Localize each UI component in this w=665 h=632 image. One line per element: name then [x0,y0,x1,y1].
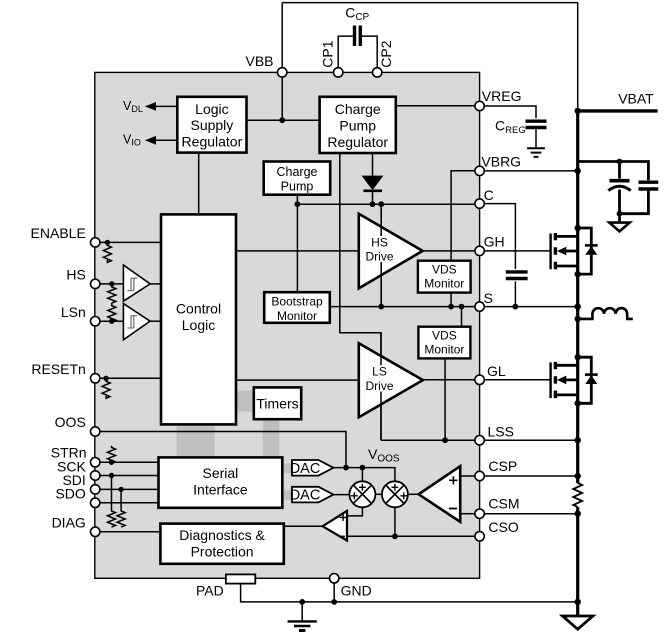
svg-text:HS: HS [66,267,85,283]
wire S pin to power rail [484,306,577,308]
svg-text:Pump: Pump [281,179,314,193]
junction Q2 source [575,400,581,406]
svg-text:PAD: PAD [196,582,224,598]
junction VBB node [279,117,285,123]
svg-text:CSO: CSO [488,519,518,535]
svg-text:Monitor: Monitor [424,276,464,290]
junction ground line at rail [575,599,581,605]
wire STRn pin to Serial Interface [100,461,159,463]
svg-text:Pump: Pump [339,117,376,133]
wire summer1 to summer2 [375,493,382,495]
wire top rail VBB to VBAT column [282,2,578,4]
pin GH [475,246,484,255]
resistor STRn pull-up [108,446,116,464]
wire Logic Supply Regulator to Control Logic [198,153,200,215]
wire Vio arrow line [146,139,177,141]
junction GND pin at ground line [331,599,337,605]
block Diagnostics and Protection [160,524,283,564]
pin VBRG [475,166,484,175]
wire bootstrap cap to S wire [514,281,516,306]
wire Voos branch to summer 1 [361,468,363,482]
wire diode cathode to C node [372,191,374,204]
wire buffer amp output to Diagnostics block [284,525,323,527]
pin SCK [91,471,100,480]
op-amp current sense [419,466,461,522]
pin SDI [91,485,100,494]
wire GL pin to LS FET gate [484,379,549,381]
svg-text:Logic: Logic [195,101,228,117]
inductor load [578,308,633,319]
svg-text:GH: GH [484,234,505,250]
transistor Q1 high-side MOSFET [551,233,578,269]
junction STRn pull-up [109,460,114,465]
junction diode cathode at C line [370,201,376,207]
svg-text:CP1: CP1 [320,40,336,67]
junction bulk caps ground node [617,211,623,217]
svg-text:VDS: VDS [432,262,457,276]
wire PAD to bottom ground line [241,584,578,602]
wire CSO line buffer amp minus to CSO pin [347,535,475,537]
svg-text:Control: Control [176,301,221,317]
bus Serial Interface to DAC1 [281,464,292,474]
capacitor bulk ceramic [620,182,659,214]
pin CP2 [373,68,382,77]
pin DIAG [91,527,100,536]
wire VDS Monitor 1 to S line [450,293,452,307]
pin GL [475,375,484,384]
wire LSn pin to input buffer [100,320,124,322]
svg-text:Charge: Charge [335,101,381,117]
svg-text:VBB: VBB [245,53,273,69]
wire LS Drive output to GL pin [423,379,475,381]
wire Charge Pump Regulator bottom to diode anode [372,153,374,177]
svg-text:Regulator: Regulator [182,134,243,150]
svg-text:OOS: OOS [55,414,86,430]
junction VDS Monitor 1 at S line [448,304,454,310]
svg-text:ENABLE: ENABLE [31,225,86,241]
pin HS [91,279,100,288]
power rail VBAT column lower [576,507,579,618]
svg-text:CSM: CSM [488,496,519,512]
resistor HS-LSn termination upper [108,284,116,303]
junction HS Drive feed at C line [378,201,384,207]
wire DAC1 output Voos line [333,468,395,482]
pin CSM [475,509,484,518]
diode Q2 body [578,357,598,403]
junction CSP at rail [575,473,581,479]
junction Q2 drain [575,354,581,360]
wire CSM pin to power rail [484,513,577,515]
junction Q1 drain [575,225,581,231]
wire VBRG capacitor branch [578,162,649,181]
junction summer 2 output at CSO line [392,533,398,539]
ground open triangle at rail bottom [563,616,593,629]
junction Charge Pump at C line [295,201,301,207]
wire top rail down to VBAT junction [577,3,579,111]
svg-text:VREG: VREG [482,88,522,104]
ground signal at Creg [527,148,545,157]
wire Charge Pump block down to Bootstrap Monitor [296,195,298,293]
svg-text:DAC: DAC [290,488,321,504]
block VDS Monitor lower [418,327,470,359]
svg-text:CSP: CSP [488,458,517,474]
wire C to S feed redrawn over HS Drive [380,204,382,306]
svg-text:S: S [484,290,493,306]
junction VBAT at rail [575,108,581,114]
pin VBB [278,68,287,77]
wire HS pin to input buffer [100,283,124,285]
pin LSn [91,317,100,326]
wire Charge Pump Regulator to VREG pin [396,105,475,107]
ground earth symbol at bottom [288,621,317,626]
op-amp LS Drive [359,343,423,417]
capacitor Creg plates [526,121,547,127]
wire GND pin down to ground line [333,583,335,602]
junction HS termination [109,281,114,286]
svg-text:DIAG: DIAG [52,515,86,531]
resistor RESETn pull-down [102,378,110,398]
pin OOS [91,427,100,436]
wire RESETn pin to Control Logic [100,377,161,379]
pin VREG [475,101,484,110]
wire C pin external branch to bootstrap cap [484,204,515,269]
IC body (gray block) [95,72,480,578]
svg-text:Bootstrap: Bootstrap [271,295,323,309]
wire SDI pin to Serial Interface [100,488,159,490]
wire LSS line to LSS pin [381,439,475,441]
svg-text:DAC: DAC [290,461,321,477]
bus Serial Interface to DAC2 [281,490,292,500]
wire Bootstrap Monitor to S node [330,306,381,308]
resistor HS-LSn termination lower [108,303,116,322]
wire VREG pin to Creg capacitor [484,106,536,118]
wire VDS Monitor 2 to LSS line [444,358,446,440]
wire Control Logic to LS Drive input [236,379,359,381]
pin C [475,199,484,208]
junction CSM at rail [575,511,581,517]
wire C line to C pin [297,203,475,205]
pin CSO [475,532,484,541]
pin CP1 [334,68,343,77]
schmitt buffer HS input [123,265,150,301]
svg-text:HS: HS [371,235,388,249]
resistor SCK pull-down with stub [108,476,116,528]
pin STRn [91,458,100,467]
bus Control Logic to Timers [235,391,254,412]
junction RESETn pull-down [103,376,108,381]
resistor current sense on rail [573,483,582,507]
junction bootstrap cap at S line [513,304,519,310]
junction OOS at Voos line [343,465,349,471]
junction ENABLE pull-down [105,240,110,245]
svg-text:LS: LS [372,365,387,379]
wire earth ground stem [301,602,303,621]
summer circle 2 [382,481,408,507]
transistor Q2 low-side MOSFET [551,362,578,398]
svg-text:Logic: Logic [182,317,215,333]
block VDS Monitor upper [418,261,471,293]
svg-text:VBRG: VBRG [481,154,521,170]
svg-text:Serial: Serial [203,465,239,481]
svg-text:GND: GND [341,582,372,598]
diode charge pump regulator output [363,176,383,191]
wire GH pin to HS FET gate [484,250,549,252]
wire S line down to VDS Monitor 2 [461,307,463,327]
junction PAD ground at earth symbol [299,599,305,605]
block Bootstrap Monitor [264,292,330,323]
wire HS buffer output to Control Logic [150,283,161,285]
pin S [475,302,484,311]
svg-text:SDO: SDO [55,486,85,502]
wire sense amp minus input to CSM pin [460,513,475,515]
capacitor bootstrap GH-S plates [506,272,528,279]
svg-text:RESETn: RESETn [31,361,85,377]
block DAC 2 [290,487,334,504]
wire VBRG pin to power rail [484,170,577,172]
junction VDS Monitor 2 tap at S line [459,304,465,310]
junction S node at rail [575,303,581,309]
svg-text:Monitor: Monitor [277,309,317,323]
wire LSS pin to power rail [484,439,577,441]
wire CP1 stub to Ccp [338,36,353,68]
wire CSP pin to power rail [484,475,577,477]
ground open triangle at bulk capacitors [609,214,629,232]
svg-text:Supply: Supply [190,117,233,133]
wire Charge Pump Regulator bottom-left to LS Drive supply [340,153,381,440]
wire Logic Supply Regulator to Charge Pump Regulator (VBB node) [247,119,320,121]
junction Voos to summer 1 [360,465,366,471]
svg-text:Protection: Protection [191,544,254,560]
svg-text:Diagnostics &: Diagnostics & [179,527,265,543]
svg-text:VBAT: VBAT [618,91,654,107]
diode Q1 body [578,228,598,274]
wire DIAG pin to Diagnostics block [100,531,160,533]
svg-text:LSn: LSn [61,304,86,320]
wire VBRG pin into chip [451,171,475,261]
summer circle 1 [349,481,375,507]
schmitt buffer LSn input [123,304,150,340]
pin CSP [475,471,484,480]
junction inductor tap [575,316,581,322]
wire VBAT feed [578,109,658,112]
block Charge Pump Regulator [320,97,396,153]
block DAC 1 [290,460,334,477]
resistor SDI pull-down with stub [117,489,125,527]
wire ENABLE pin to Control Logic [100,241,161,243]
wire summer2 to sense amp [408,493,419,495]
junction SDI pull-down [118,487,123,492]
wire summer1 bottom to buffer amp plus input [347,507,362,516]
svg-text:CP2: CP2 [378,40,394,67]
svg-text:Interface: Interface [193,482,248,498]
svg-text:LSS: LSS [488,424,514,440]
svg-text:Monitor: Monitor [424,342,464,356]
svg-text:Charge: Charge [277,165,318,179]
power rail VBAT column upper [576,109,579,483]
wire VBB pin up to top rail [281,3,283,68]
svg-text:Regulator: Regulator [327,134,388,150]
junction bulk caps branch [617,159,623,165]
wire summer2 bottom to CSO line [394,507,396,536]
op-amp offset buffer [323,511,347,541]
wire DAC2 output to summer 1 [333,494,349,496]
junction VDS Monitor 2 at LSS line [442,437,448,443]
wire VBB pin down into chip [281,77,283,120]
block Charge Pump [264,162,331,195]
junction Q1 source [575,271,581,277]
block Logic Supply Regulator [177,97,246,153]
block Serial Interface [159,457,283,507]
arrowhead Vdl output [145,102,156,111]
svg-text:Drive: Drive [365,250,393,264]
bus Timers to Serial Interface [263,418,280,457]
wire SDO pin to Serial Interface [100,502,159,504]
PINS [91,68,485,583]
junction LSn termination [109,319,114,324]
capacitor Ccp plates [355,26,361,47]
capacitor bulk electrolytic [608,181,630,214]
pin LSS [475,436,484,445]
svg-text:C: C [484,187,494,203]
bus Control Logic to Serial Interface [177,423,215,457]
junction HS Drive return at S line [378,304,384,310]
svg-text:VDS: VDS [432,328,457,342]
wire OOS pin to Voos node [100,432,346,468]
block Timers [254,387,301,419]
block Control Logic [161,214,236,424]
pin SDO [91,498,100,507]
junction VBRG at rail [575,168,581,174]
wire sense amp plus input to CSP pin [460,475,475,477]
wire Creg to signal ground [535,129,537,147]
junction SCK pull-down [109,473,114,478]
pin ENABLE [91,238,100,247]
pin RESETn [91,374,100,383]
arrowhead Vio output [145,136,156,145]
op-amp HS Drive [359,214,423,288]
wire HS Drive output to GH pin [423,250,475,252]
svg-text:Timers: Timers [256,395,298,411]
wire C node down through HS Drive to S node [380,204,382,306]
wire Vdl arrow line [146,105,177,107]
pin GND [330,574,339,583]
wire Control Logic to HS Drive input [236,250,359,252]
wire SCK pin to Serial Interface [100,475,159,477]
wire LSn buffer output to Control Logic [150,320,161,322]
wire S internal line to S pin [381,306,475,308]
wire LS Drive supply redrawn over LS Drive [380,333,382,440]
resistor ENABLE pull-down [103,242,111,262]
svg-text:GL: GL [487,363,506,379]
pad PAD exposed thermal pad [226,574,255,583]
junction LSS at rail [575,437,581,443]
wire CP2 stub to Ccp [362,36,377,68]
svg-text:Drive: Drive [365,379,393,393]
